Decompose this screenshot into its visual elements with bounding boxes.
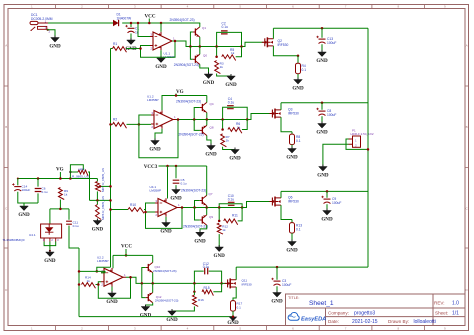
svg-text:GND: GND bbox=[49, 44, 61, 50]
svg-text:1N4007W: 1N4007W bbox=[117, 17, 133, 21]
svg-text:0.1: 0.1 bbox=[296, 228, 301, 232]
svg-text:2N3904(SOT-23): 2N3904(SOT-23) bbox=[179, 132, 204, 136]
svg-text:GND: GND bbox=[271, 299, 283, 305]
svg-text:0.1u: 0.1u bbox=[222, 25, 229, 29]
svg-text:2N3904(SOT-23): 2N3904(SOT-23) bbox=[176, 99, 201, 103]
svg-text:R11: R11 bbox=[232, 213, 238, 217]
svg-text:GND: GND bbox=[227, 320, 239, 326]
svg-text:GND: GND bbox=[170, 196, 182, 202]
svg-text:TL431BIDBZQ0: TL431BIDBZQ0 bbox=[3, 238, 25, 242]
svg-text:GND: GND bbox=[160, 229, 172, 235]
svg-text:2021-02-15: 2021-02-15 bbox=[352, 319, 378, 325]
svg-text:progetto3: progetto3 bbox=[354, 310, 375, 316]
svg-text:LM358P: LM358P bbox=[97, 259, 109, 263]
svg-text:R16: R16 bbox=[198, 298, 204, 302]
svg-text:2N3904(SOT-23): 2N3904(SOT-23) bbox=[170, 18, 195, 22]
svg-text:GND: GND bbox=[317, 173, 329, 179]
svg-text:Q0: Q0 bbox=[203, 54, 207, 58]
svg-text:1k: 1k bbox=[64, 193, 68, 197]
svg-text:HDR-F 2.54_1X2: HDR-F 2.54_1X2 bbox=[351, 132, 374, 136]
svg-text:1k: 1k bbox=[220, 65, 224, 69]
svg-text:100uF: 100uF bbox=[332, 201, 341, 205]
svg-text:GND: GND bbox=[286, 155, 298, 161]
svg-text:Q8: Q8 bbox=[210, 126, 214, 130]
svg-text:R1: R1 bbox=[113, 42, 117, 46]
svg-text:GND: GND bbox=[92, 227, 104, 233]
svg-text:GND: GND bbox=[286, 248, 298, 254]
svg-text:U4.1: U4.1 bbox=[29, 233, 36, 237]
svg-text:IRF530: IRF530 bbox=[288, 112, 299, 116]
svg-text:2N3904(SOT-23): 2N3904(SOT-23) bbox=[153, 269, 177, 273]
svg-text:GND: GND bbox=[149, 147, 161, 153]
svg-text:100uF: 100uF bbox=[327, 41, 336, 45]
svg-text:DC005-2.0MM: DC005-2.0MM bbox=[31, 17, 53, 21]
svg-text:GND: GND bbox=[155, 64, 167, 70]
svg-text:GND: GND bbox=[292, 86, 304, 92]
svg-text:LM358P: LM358P bbox=[147, 98, 159, 102]
svg-text:0.1u: 0.1u bbox=[181, 182, 187, 186]
svg-text:IRF530: IRF530 bbox=[278, 43, 289, 47]
svg-text:VG: VG bbox=[176, 89, 184, 95]
svg-text:A: A bbox=[466, 44, 468, 48]
svg-text:0.1u: 0.1u bbox=[203, 265, 210, 269]
svg-text:2N3904(SOT-23): 2N3904(SOT-23) bbox=[181, 189, 206, 193]
svg-text:VCC: VCC bbox=[121, 243, 132, 249]
svg-text:0.1u: 0.1u bbox=[228, 197, 235, 201]
svg-text:100uF: 100uF bbox=[282, 283, 291, 287]
svg-text:Date:: Date: bbox=[328, 319, 339, 324]
svg-text:1/1: 1/1 bbox=[452, 310, 459, 316]
svg-text:GND: GND bbox=[140, 313, 152, 319]
svg-text:2N3904(SOT-23): 2N3904(SOT-23) bbox=[183, 224, 208, 228]
svg-text:GND: GND bbox=[316, 130, 328, 136]
svg-text:VG: VG bbox=[56, 167, 64, 173]
svg-text:MP3 R_0805_US: MP3 R_0805_US bbox=[101, 196, 105, 220]
svg-text:B: B bbox=[5, 125, 7, 129]
svg-text:GND: GND bbox=[225, 82, 237, 88]
svg-text:Q7: Q7 bbox=[209, 192, 213, 196]
svg-text:1k: 1k bbox=[226, 139, 230, 143]
svg-text:1k: 1k bbox=[237, 125, 241, 129]
svg-text:R15: R15 bbox=[204, 286, 210, 290]
svg-text:MP2 R_0805_US: MP2 R_0805_US bbox=[101, 168, 105, 192]
svg-text:0.1u: 0.1u bbox=[228, 100, 235, 104]
svg-text:GND: GND bbox=[166, 317, 178, 323]
svg-text:GND: GND bbox=[44, 258, 56, 264]
svg-text:0.1u: 0.1u bbox=[73, 224, 79, 228]
svg-text:GND: GND bbox=[203, 80, 215, 86]
svg-text:GND: GND bbox=[229, 156, 241, 162]
svg-text:GND: GND bbox=[205, 152, 217, 158]
svg-text:A: A bbox=[5, 44, 7, 48]
svg-text:1k: 1k bbox=[222, 228, 226, 232]
svg-text:GND: GND bbox=[194, 238, 206, 244]
svg-text:B: B bbox=[466, 125, 468, 129]
svg-text:TITLE:: TITLE: bbox=[288, 296, 299, 300]
svg-text:LM358P: LM358P bbox=[150, 189, 162, 193]
svg-text:lolloaleotti: lolloaleotti bbox=[414, 319, 436, 325]
svg-text:0.1u: 0.1u bbox=[42, 190, 48, 194]
svg-text:IRF530: IRF530 bbox=[242, 283, 252, 287]
svg-text:MP1: MP1 bbox=[79, 167, 86, 171]
svg-text:Q4: Q4 bbox=[210, 102, 214, 106]
svg-text:GND: GND bbox=[106, 299, 118, 305]
svg-text:Q9: Q9 bbox=[209, 215, 213, 219]
svg-text:1k: 1k bbox=[87, 279, 91, 283]
svg-text:2N3904(SOT-23): 2N3904(SOT-23) bbox=[174, 63, 199, 67]
svg-text:Drawn By:: Drawn By: bbox=[388, 319, 409, 324]
svg-text:VCC3: VCC3 bbox=[144, 164, 158, 170]
svg-text:R10: R10 bbox=[130, 203, 136, 207]
svg-text:IRF530: IRF530 bbox=[288, 200, 299, 204]
svg-text:EasyEDA: EasyEDA bbox=[301, 316, 326, 322]
svg-text:REV:: REV: bbox=[434, 300, 445, 305]
svg-text:R_0805_US: R_0805_US bbox=[72, 175, 89, 179]
svg-text:VCC: VCC bbox=[144, 13, 155, 19]
svg-text:GND: GND bbox=[214, 253, 226, 259]
svg-text:GND: GND bbox=[18, 212, 30, 218]
svg-text:0.1: 0.1 bbox=[296, 139, 301, 143]
svg-text:Sheet_1: Sheet_1 bbox=[309, 300, 334, 307]
svg-text:2N3904(SOT-23): 2N3904(SOT-23) bbox=[155, 299, 179, 303]
svg-text:GND: GND bbox=[321, 217, 333, 223]
svg-text:1k: 1k bbox=[231, 51, 235, 55]
svg-text:R2: R2 bbox=[113, 118, 117, 122]
svg-text:Company:: Company: bbox=[328, 310, 349, 315]
svg-text:0.1: 0.1 bbox=[302, 68, 307, 72]
svg-text:0.1: 0.1 bbox=[237, 306, 242, 310]
svg-text:GND: GND bbox=[316, 58, 328, 64]
svg-text:Sheet:: Sheet: bbox=[435, 310, 448, 315]
svg-text:100uF: 100uF bbox=[22, 188, 31, 192]
svg-text:1.0: 1.0 bbox=[452, 300, 459, 306]
svg-text:100uF: 100uF bbox=[327, 113, 336, 117]
svg-text:Q1: Q1 bbox=[202, 26, 206, 30]
